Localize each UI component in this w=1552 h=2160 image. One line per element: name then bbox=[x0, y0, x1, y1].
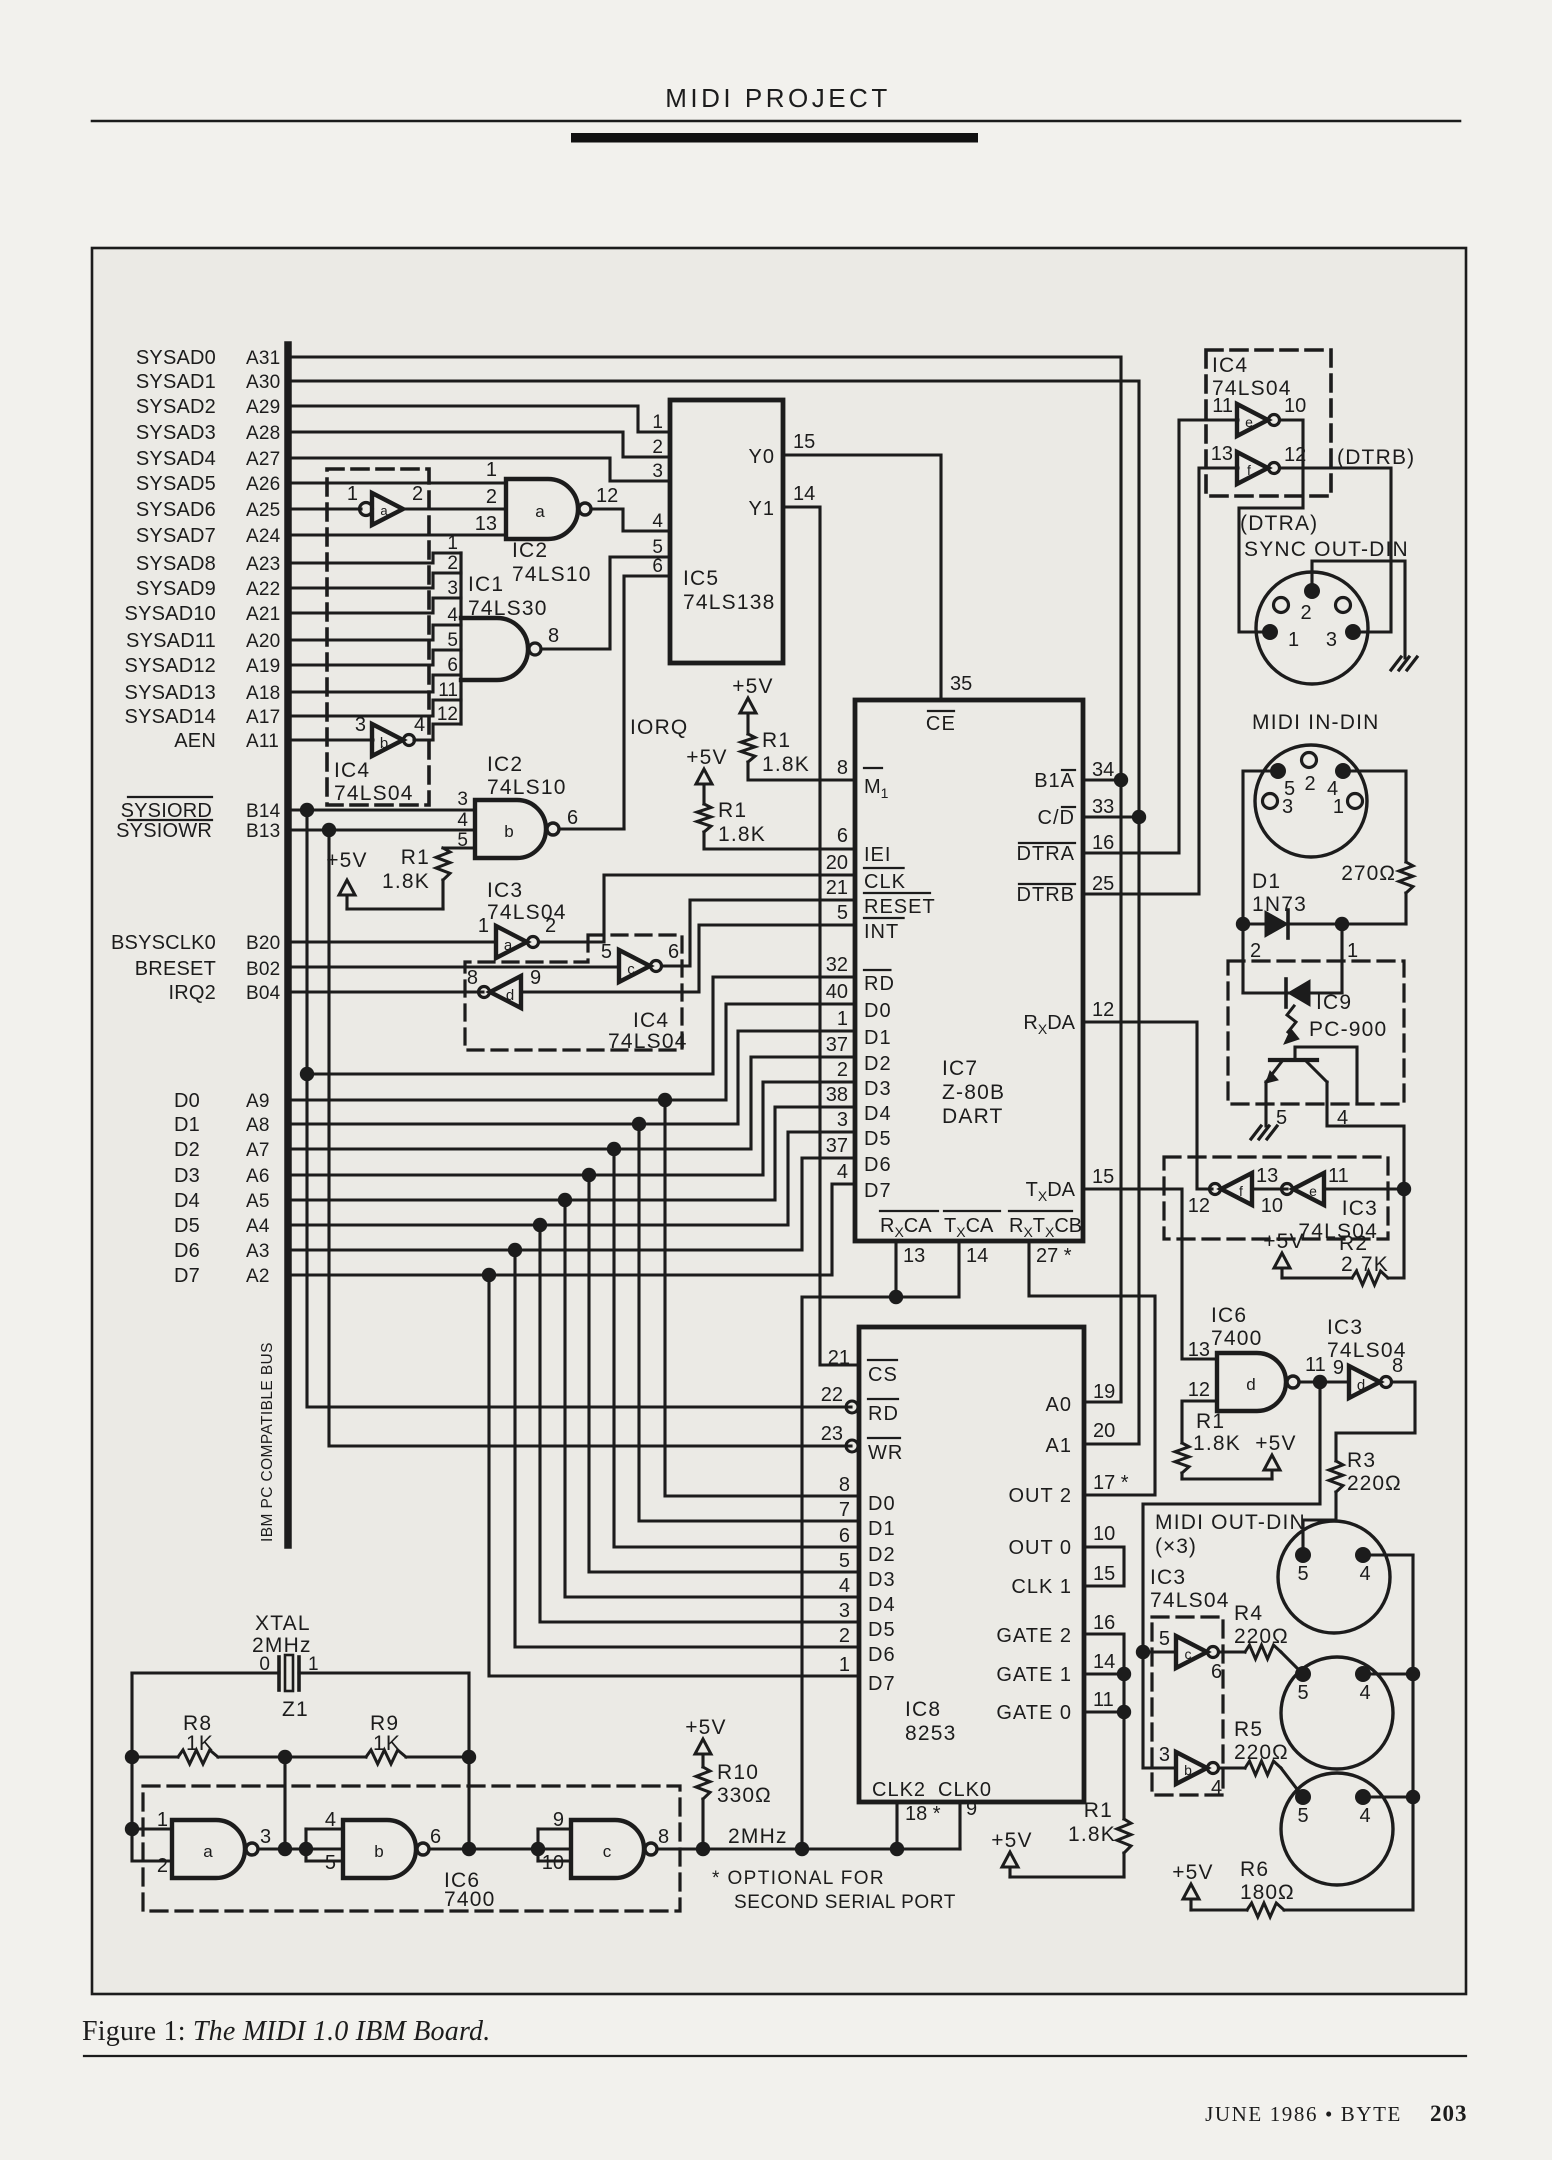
svg-text:D4: D4 bbox=[868, 1594, 896, 1616]
svg-text:SYSAD3: SYSAD3 bbox=[136, 422, 216, 444]
inverter IC3b bbox=[1176, 1752, 1207, 1784]
svg-text:D7: D7 bbox=[864, 1180, 892, 1202]
svg-text:A9: A9 bbox=[246, 1091, 270, 1112]
wire MIDI OUT 3 pin 4 to +5V rail bbox=[1363, 1795, 1413, 1798]
MIDI IN pin 4 dot bbox=[1335, 763, 1351, 779]
wire IC6b output bbox=[429, 1847, 571, 1850]
svg-text:Y1: Y1 bbox=[749, 498, 775, 520]
svg-text:GATE 1: GATE 1 bbox=[996, 1664, 1072, 1686]
wire AEN to inverter IC4b input bbox=[291, 738, 373, 741]
svg-text:15: 15 bbox=[1092, 1166, 1114, 1188]
IC IC5 74LS138 box bbox=[670, 400, 783, 663]
svg-text:4: 4 bbox=[839, 1575, 850, 1597]
svg-text:74LS10: 74LS10 bbox=[487, 776, 567, 799]
resistor R6 180 ohm bbox=[1284, 1909, 1413, 1912]
svg-text:Z-80B: Z-80B bbox=[942, 1081, 1005, 1104]
svg-text:74LS04: 74LS04 bbox=[334, 782, 414, 805]
junction dot feedback b bbox=[462, 1842, 476, 1856]
svg-text:SYSAD13: SYSAD13 bbox=[125, 682, 216, 704]
svg-text:11: 11 bbox=[1093, 1689, 1114, 1711]
wire junction to IC3e input bbox=[1324, 1187, 1404, 1190]
svg-text:5: 5 bbox=[325, 1852, 336, 1874]
wire D4 bus row to IC7 bbox=[291, 1107, 855, 1200]
svg-text:Figure 1: The MIDI 1.0 IBM Boa: Figure 1: The MIDI 1.0 IBM Board. bbox=[82, 2016, 490, 2047]
wire R1 to +5V arrow bbox=[347, 907, 443, 910]
svg-text:MIDI PROJECT: MIDI PROJECT bbox=[665, 83, 890, 113]
junction dot D0 bbox=[658, 1093, 672, 1107]
svg-text:11: 11 bbox=[1212, 395, 1233, 417]
wire SYSAD10 to IC1 pin 3 bbox=[291, 598, 461, 613]
svg-text:D5: D5 bbox=[864, 1128, 892, 1150]
svg-text:3: 3 bbox=[355, 714, 366, 736]
svg-text:1: 1 bbox=[652, 412, 663, 433]
wire C/D pin 33 to SYSAD1 vertical bbox=[1083, 815, 1139, 818]
svg-text:1K: 1K bbox=[186, 1732, 214, 1755]
svg-text:D6: D6 bbox=[174, 1240, 200, 1262]
svg-text:34: 34 bbox=[1092, 759, 1114, 781]
svg-text:3: 3 bbox=[1326, 629, 1337, 651]
nand gate IC2b 74LS10 bbox=[475, 800, 546, 858]
svg-text:3: 3 bbox=[1159, 1744, 1170, 1766]
wire D0 bus row to IC7 bbox=[291, 1004, 855, 1100]
wire 2MHz line bbox=[657, 1847, 960, 1850]
wire A1 to SYSAD1 vertical bbox=[1087, 1442, 1139, 1445]
resistor R5 220 ohm bbox=[1245, 1761, 1281, 1775]
svg-text:15: 15 bbox=[793, 431, 815, 453]
wire SYSAD14 to IC1 pin 11 bbox=[291, 700, 461, 716]
MIDI OUT 2 pin 4 dot bbox=[1355, 1666, 1371, 1682]
wire IC6a output bbox=[258, 1847, 343, 1850]
wire IC6b inputs bbox=[304, 1829, 307, 1861]
svg-text:74LS04: 74LS04 bbox=[1327, 1339, 1407, 1362]
dashed box IC3 (gates c,b) bbox=[1152, 1617, 1223, 1795]
+5V arrow (IEI pullup) bbox=[696, 769, 712, 784]
svg-text:e: e bbox=[1245, 414, 1253, 430]
svg-text:1: 1 bbox=[447, 533, 458, 554]
svg-text:(DTRB): (DTRB) bbox=[1337, 446, 1415, 469]
+5V arrow (IC2b pullup) bbox=[339, 880, 355, 895]
svg-text:IC4: IC4 bbox=[1212, 354, 1248, 377]
nand gate IC6d 7400 bbox=[1217, 1353, 1286, 1411]
svg-text:D3: D3 bbox=[864, 1078, 892, 1100]
svg-text:IC5: IC5 bbox=[683, 567, 719, 590]
ground symbol (SYNC DIN) bbox=[1391, 657, 1417, 670]
junction dot D1 cathode bbox=[1335, 917, 1349, 931]
MIDI OUT 3 pin 5 dot bbox=[1295, 1789, 1311, 1805]
IC IC7 Z-80B DART box bbox=[855, 700, 1083, 1241]
svg-text:CE: CE bbox=[926, 713, 956, 735]
svg-text:2: 2 bbox=[412, 483, 423, 505]
svg-text:IC2: IC2 bbox=[512, 539, 548, 562]
wire R5 to DIN3 pin 5 bbox=[1281, 1768, 1303, 1797]
wire MIDI OUT 1 pin 4 to +5V rail bbox=[1363, 1553, 1413, 1556]
dashed box IC4 74LS04 (left) bbox=[327, 469, 429, 805]
svg-text:c: c bbox=[627, 961, 635, 978]
junction dot R8 left bbox=[125, 1750, 139, 1764]
wire Y1 to IC8 CS pin 21 bbox=[783, 507, 859, 1365]
svg-text:13: 13 bbox=[1256, 1165, 1278, 1187]
resistor R2 2.7K bbox=[1352, 1271, 1388, 1285]
svg-text:B14: B14 bbox=[246, 801, 281, 822]
svg-text:D1: D1 bbox=[868, 1518, 896, 1540]
junction dot rail DIN2 bbox=[1406, 1667, 1420, 1681]
svg-text:RXCA: RXCA bbox=[880, 1215, 932, 1240]
svg-text:TXDA: TXDA bbox=[1026, 1179, 1076, 1204]
svg-text:D0: D0 bbox=[174, 1090, 200, 1112]
svg-text:7400: 7400 bbox=[1211, 1327, 1263, 1350]
nand gate IC6a bbox=[172, 1820, 245, 1878]
svg-text:A28: A28 bbox=[246, 423, 280, 444]
svg-text:SYSAD6: SYSAD6 bbox=[136, 499, 216, 521]
wire DTRA pin 16 to IC4e input bbox=[1083, 420, 1238, 853]
svg-text:SECOND SERIAL PORT: SECOND SERIAL PORT bbox=[734, 1892, 956, 1913]
diode D1 1N73 bbox=[1265, 911, 1288, 937]
svg-text:R3: R3 bbox=[1347, 1449, 1376, 1472]
svg-text:DTRA: DTRA bbox=[1017, 843, 1075, 865]
svg-text:b: b bbox=[374, 1842, 383, 1861]
wire SYSIOWR vertical to IC8 WR bbox=[329, 830, 851, 1446]
svg-text:7400: 7400 bbox=[444, 1888, 496, 1911]
+5V arrow (R10) bbox=[695, 1739, 711, 1754]
wire XTAL left vertical bbox=[132, 1673, 172, 1861]
wire R3 to MIDI OUT DIN1 pin 5 bbox=[1303, 1492, 1336, 1555]
svg-text:9: 9 bbox=[966, 1798, 977, 1820]
svg-text:IC4: IC4 bbox=[334, 759, 370, 782]
svg-text:8253: 8253 bbox=[905, 1722, 957, 1745]
svg-text:33: 33 bbox=[1092, 796, 1114, 818]
junction dot D6 bbox=[508, 1243, 522, 1257]
svg-text:2: 2 bbox=[157, 1855, 168, 1877]
svg-text:f: f bbox=[1239, 1183, 1243, 1199]
svg-text:CLK 1: CLK 1 bbox=[1011, 1576, 1072, 1598]
junction dot gate a input bbox=[125, 1822, 139, 1836]
svg-text:SYSAD7: SYSAD7 bbox=[136, 525, 216, 547]
wire IC2b pin5 stub bbox=[443, 846, 475, 849]
junction dot RxCA bbox=[889, 1290, 903, 1304]
svg-text:a: a bbox=[203, 1842, 213, 1861]
wire RxDA pin 12 from IC3f output bbox=[1083, 1022, 1212, 1189]
svg-text:SYNC OUT-DIN: SYNC OUT-DIN bbox=[1244, 538, 1409, 561]
svg-text:9: 9 bbox=[553, 1809, 564, 1831]
junction dot R8/R9 bbox=[278, 1750, 292, 1764]
svg-text:D1: D1 bbox=[174, 1114, 200, 1136]
svg-text:1: 1 bbox=[486, 459, 497, 481]
DIN connector MIDI IN bbox=[1255, 745, 1367, 857]
wire R4 to DIN2 pin 5 bbox=[1281, 1652, 1303, 1674]
svg-text:CLK: CLK bbox=[864, 871, 906, 893]
svg-text:a: a bbox=[504, 937, 513, 954]
svg-text:203: 203 bbox=[1430, 2101, 1468, 2126]
svg-text:1: 1 bbox=[1288, 629, 1299, 651]
svg-text:IC3: IC3 bbox=[1150, 1566, 1186, 1589]
junction dot 2MHz CLK2 bbox=[890, 1842, 904, 1856]
wire D0 branch to IC8 D0 bbox=[665, 1100, 859, 1496]
svg-text:SYSAD1: SYSAD1 bbox=[136, 371, 216, 393]
MIDI OUT 2 pin 5 dot bbox=[1295, 1666, 1311, 1682]
wire IC3a output to IC7 CLK pin 20 bbox=[539, 875, 855, 942]
svg-text:IC1: IC1 bbox=[468, 573, 504, 596]
svg-text:A23: A23 bbox=[246, 554, 280, 575]
svg-text:a: a bbox=[380, 503, 388, 518]
junction dot D2 bbox=[607, 1142, 621, 1156]
svg-text:R1: R1 bbox=[762, 729, 791, 752]
svg-text:SYSAD9: SYSAD9 bbox=[136, 578, 216, 600]
svg-text:5: 5 bbox=[1159, 1628, 1170, 1650]
wire IC3b output to R5 bbox=[1219, 1766, 1245, 1769]
svg-text:4: 4 bbox=[837, 1161, 848, 1183]
junction dot R10 bbox=[696, 1842, 710, 1856]
wire IC6d pin 12 to R1 pullup bbox=[1182, 1401, 1217, 1443]
junction dot 2MHz RxCA bbox=[795, 1842, 809, 1856]
wire SYSAD1 to vertical x1139 bbox=[291, 381, 1139, 1444]
svg-text:4: 4 bbox=[652, 511, 663, 532]
svg-text:OUT 0: OUT 0 bbox=[1008, 1537, 1072, 1559]
resistor R1 1.8K (IC6d pullup) bbox=[1175, 1443, 1189, 1473]
svg-text:SYSAD11: SYSAD11 bbox=[126, 630, 216, 652]
svg-text:8: 8 bbox=[658, 1826, 669, 1848]
svg-text:A5: A5 bbox=[246, 1191, 270, 1212]
svg-text:21: 21 bbox=[828, 1347, 850, 1369]
wire A0 to SYSAD0 vertical bbox=[1087, 1400, 1121, 1403]
svg-text:IBM PC COMPATIBLE BUS: IBM PC COMPATIBLE BUS bbox=[259, 1342, 276, 1542]
svg-text:R10: R10 bbox=[717, 1761, 759, 1784]
svg-text:D6: D6 bbox=[868, 1644, 896, 1666]
junction dot B1A bbox=[1114, 773, 1128, 787]
SYNC DIN pin 1 dot bbox=[1262, 624, 1278, 640]
svg-text:A27: A27 bbox=[246, 449, 280, 470]
svg-text:18 *: 18 * bbox=[905, 1803, 941, 1825]
svg-text:2: 2 bbox=[839, 1625, 850, 1647]
wire D2 bus row to IC7 bbox=[291, 1057, 855, 1149]
svg-text:+5V: +5V bbox=[732, 675, 774, 698]
svg-text:3: 3 bbox=[1282, 796, 1293, 818]
svg-text:IEI: IEI bbox=[864, 844, 891, 866]
phototransistor IC9 bbox=[1270, 1058, 1317, 1062]
inverter IC3c bbox=[1176, 1636, 1207, 1668]
svg-text:13: 13 bbox=[1211, 443, 1233, 465]
svg-text:(×3): (×3) bbox=[1155, 1535, 1197, 1558]
caption rule bbox=[84, 2055, 1466, 2057]
wire D5 branch to IC8 D5 bbox=[540, 1225, 859, 1622]
svg-text:27 *: 27 * bbox=[1036, 1245, 1072, 1267]
svg-text:D0: D0 bbox=[864, 1000, 892, 1022]
svg-text:a: a bbox=[535, 502, 545, 521]
nand gate IC1 74LS30 bbox=[459, 553, 462, 724]
wire SYSIORD B14 to IC2b pin 3 bbox=[291, 808, 475, 811]
svg-text:IC9: IC9 bbox=[1316, 991, 1352, 1014]
svg-text:IC2: IC2 bbox=[487, 753, 523, 776]
svg-text:180Ω: 180Ω bbox=[1240, 1881, 1295, 1904]
svg-text:8: 8 bbox=[839, 1474, 850, 1496]
SYNC DIN pin 3 dot bbox=[1345, 624, 1361, 640]
wire IC3c output to R4 bbox=[1219, 1650, 1245, 1653]
svg-text:d: d bbox=[1357, 1377, 1365, 1394]
junction dot D1 anode bbox=[1236, 917, 1250, 931]
svg-text:JUNE 1986 • BYTE: JUNE 1986 • BYTE bbox=[1205, 2102, 1402, 2126]
svg-text:+5V: +5V bbox=[991, 1829, 1033, 1852]
svg-text:SYSAD4: SYSAD4 bbox=[136, 448, 216, 470]
LED inside IC9 bbox=[1243, 991, 1342, 994]
wire R1 to +5V (IC6d) bbox=[1182, 1477, 1272, 1480]
svg-text:R1: R1 bbox=[1196, 1410, 1225, 1433]
svg-text:+5V: +5V bbox=[685, 1716, 727, 1739]
svg-text:37: 37 bbox=[826, 1135, 848, 1157]
svg-text:DART: DART bbox=[942, 1105, 1004, 1128]
svg-text:1: 1 bbox=[308, 1654, 319, 1675]
svg-text:4: 4 bbox=[325, 1809, 336, 1831]
SYNC DIN left open pin bbox=[1274, 598, 1289, 613]
light arrow IC9 bbox=[1287, 1006, 1296, 1032]
resistor 270 ohm bbox=[1399, 862, 1413, 893]
svg-text:5: 5 bbox=[652, 537, 663, 558]
svg-text:A18: A18 bbox=[246, 683, 280, 704]
wire IC2b output to IC7 CLK route bbox=[559, 827, 624, 830]
svg-text:1: 1 bbox=[1347, 940, 1358, 962]
svg-text:+5V: +5V bbox=[326, 849, 368, 872]
svg-text:TXCA: TXCA bbox=[944, 1215, 994, 1240]
svg-text:40: 40 bbox=[826, 981, 848, 1003]
svg-text:BSYSCLK0: BSYSCLK0 bbox=[111, 932, 216, 954]
svg-text:R1: R1 bbox=[1084, 1799, 1113, 1822]
+5V arrow (GATE pullup) bbox=[1002, 1852, 1018, 1867]
wire D3 bus row to IC7 bbox=[291, 1082, 855, 1175]
dashed box IC4 74LS04 (gates e,f) bbox=[1206, 350, 1331, 496]
svg-text:WR: WR bbox=[868, 1442, 903, 1464]
svg-text:5: 5 bbox=[1297, 1805, 1308, 1827]
svg-text:3: 3 bbox=[260, 1826, 271, 1848]
wire AEN (via IC4b) to IC1 pin 12 bbox=[414, 738, 433, 741]
MIDI IN pin 3 open bbox=[1263, 794, 1278, 809]
junction dot D1 bbox=[632, 1117, 646, 1131]
svg-text:GATE 0: GATE 0 bbox=[996, 1702, 1072, 1724]
resistor R1 1.8K (M1 pullup) bbox=[746, 715, 749, 734]
MIDI OUT 1 pin 4 dot bbox=[1355, 1547, 1371, 1563]
wire RxTxCB pin 27 to IC8 OUT2 bbox=[1029, 1241, 1155, 1495]
svg-text:R1: R1 bbox=[718, 799, 747, 822]
svg-text:1.8K: 1.8K bbox=[1193, 1432, 1241, 1455]
wire IC3c input stub bbox=[1143, 1650, 1176, 1653]
wire MIDI IN pin 5 to IC9 pin 2 bbox=[1243, 771, 1278, 993]
MIDI IN pin 1 open bbox=[1348, 794, 1363, 809]
wire SYSAD5 to IC2a pin 1 bbox=[291, 481, 506, 484]
svg-text:R4: R4 bbox=[1234, 1602, 1263, 1625]
svg-text:1: 1 bbox=[1333, 796, 1344, 818]
svg-text:A30: A30 bbox=[246, 372, 280, 393]
junction dot D4 bbox=[558, 1193, 572, 1207]
svg-text:C/D: C/D bbox=[1038, 807, 1075, 829]
svg-text:+5V: +5V bbox=[1255, 1432, 1297, 1455]
svg-text:INT: INT bbox=[864, 921, 899, 943]
svg-text:35: 35 bbox=[950, 673, 972, 695]
junction dot IC6c input bbox=[531, 1842, 545, 1856]
svg-text:e: e bbox=[1309, 1183, 1317, 1199]
svg-text:330Ω: 330Ω bbox=[717, 1784, 772, 1807]
wire SYSAD9 to IC1 pin 2 bbox=[291, 573, 461, 588]
svg-text:1.8K: 1.8K bbox=[718, 823, 766, 846]
resistor R1 1.8K (IEI pullup) bbox=[702, 786, 705, 804]
svg-text:D2: D2 bbox=[868, 1544, 896, 1566]
svg-text:2: 2 bbox=[652, 437, 663, 458]
wire OUT0 to CLK1 bbox=[1087, 1547, 1124, 1586]
inverter IC4d bbox=[490, 976, 521, 1008]
svg-text:A20: A20 bbox=[246, 631, 280, 652]
svg-text:+5V: +5V bbox=[686, 746, 728, 769]
svg-text:5: 5 bbox=[601, 941, 612, 963]
svg-text:16: 16 bbox=[1092, 832, 1114, 854]
DIN connector MIDI OUT 3 bbox=[1281, 1773, 1393, 1885]
svg-text:IC4: IC4 bbox=[633, 1009, 669, 1032]
wire Y0 to IC7 CE pin 35 bbox=[783, 455, 941, 700]
nand gate IC6c bbox=[571, 1820, 644, 1878]
svg-text:23: 23 bbox=[821, 1423, 843, 1445]
dashed box IC6 7400 bbox=[143, 1786, 680, 1911]
svg-text:10: 10 bbox=[1261, 1195, 1283, 1217]
wire D7 bus row to IC7 bbox=[291, 1184, 855, 1275]
svg-text:15: 15 bbox=[1093, 1563, 1115, 1585]
bleed-through texture bbox=[99, 255, 1449, 1964]
dashed box IC9 PC-900 bbox=[1228, 961, 1404, 1104]
svg-text:4: 4 bbox=[1359, 1563, 1370, 1585]
header thick bar bbox=[571, 133, 978, 143]
junction dot D7 bbox=[482, 1268, 496, 1282]
+5V arrow (R6) bbox=[1183, 1884, 1199, 1899]
svg-text:Y0: Y0 bbox=[749, 446, 775, 468]
wire IC4e output DTRA to SYNC DIN pin 1 bbox=[1239, 420, 1303, 632]
wire SYSAD0 to vertical x1121 bbox=[291, 357, 1121, 1402]
svg-text:RD: RD bbox=[864, 973, 895, 995]
wire SYSAD13 to IC1 pin 6 bbox=[291, 675, 461, 692]
svg-text:A31: A31 bbox=[246, 348, 280, 369]
svg-text:SYSIORD: SYSIORD bbox=[121, 800, 212, 822]
svg-text:20: 20 bbox=[1093, 1420, 1115, 1442]
svg-text:RXDA: RXDA bbox=[1023, 1012, 1075, 1037]
svg-text:6: 6 bbox=[839, 1525, 850, 1547]
wire SYSAD7 to IC2a pin 13 bbox=[291, 533, 506, 536]
wire MIDI IN pin 4 to 270 ohm resistor bbox=[1343, 771, 1406, 862]
svg-text:2MHz: 2MHz bbox=[728, 1825, 788, 1848]
svg-text:D0: D0 bbox=[868, 1493, 896, 1515]
wire SYSAD12 to IC1 pin 5 bbox=[291, 650, 461, 665]
inverter IC4c bbox=[619, 950, 650, 982]
svg-text:74LS138: 74LS138 bbox=[683, 591, 775, 614]
svg-text:IC7: IC7 bbox=[942, 1057, 978, 1080]
wire IC6c inputs bbox=[536, 1829, 539, 1861]
svg-text:A24: A24 bbox=[246, 526, 281, 547]
svg-text:1: 1 bbox=[157, 1809, 168, 1831]
inverter IC3e bbox=[1293, 1173, 1324, 1205]
svg-text:D1: D1 bbox=[864, 1027, 892, 1049]
wire SYSAD2 to IC5 pin 1 bbox=[291, 406, 670, 432]
wire inverter IC4a output to IC2a pin 2 bbox=[403, 507, 506, 510]
junction dot IC6d output bbox=[1313, 1375, 1327, 1389]
wire SYSIOWR B13 to IC2b pin 4 bbox=[291, 828, 475, 831]
junction dot D5 bbox=[533, 1218, 547, 1232]
svg-text:IC3: IC3 bbox=[1327, 1316, 1363, 1339]
wire D7 branch to IC8 D7 bbox=[489, 1275, 859, 1676]
svg-text:1N73: 1N73 bbox=[1252, 893, 1307, 916]
svg-text:2: 2 bbox=[1250, 940, 1261, 962]
svg-text:A8: A8 bbox=[246, 1115, 270, 1136]
svg-text:c: c bbox=[603, 1842, 612, 1861]
crystal Z1 bbox=[132, 1671, 279, 1674]
svg-text:1: 1 bbox=[839, 1654, 850, 1676]
wire R2 to +5V bbox=[1282, 1276, 1352, 1279]
wire R2 vertical bbox=[1402, 1189, 1405, 1278]
svg-text:CLK2: CLK2 bbox=[872, 1779, 926, 1801]
svg-text:(DTRA): (DTRA) bbox=[1240, 512, 1318, 535]
wire MIDI OUT 2 pin 4 to +5V rail bbox=[1363, 1672, 1413, 1675]
resistor R1 1.8K (GATE pullup) bbox=[1117, 1819, 1131, 1853]
